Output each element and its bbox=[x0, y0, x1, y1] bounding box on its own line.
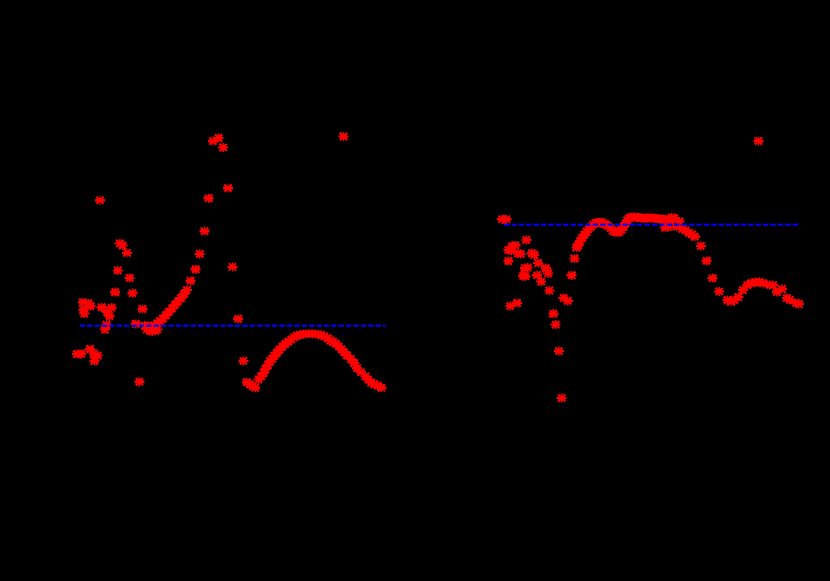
left panel: isolated points bbox=[131, 305, 249, 387]
right panel: rising branch bbox=[567, 218, 607, 280]
left panel: low-left cluster A bbox=[78, 298, 96, 318]
right panel: deep dip points bbox=[548, 293, 573, 402]
right panel: descent after plateau bbox=[672, 217, 725, 296]
left panel: lower hump arc bbox=[242, 329, 386, 392]
left panel: parabola rising chain bbox=[149, 249, 205, 330]
right panel: descending noisy cluster bbox=[503, 236, 554, 311]
right panel: first wiggle bbox=[599, 213, 638, 238]
right panel: lone high point bbox=[754, 137, 764, 146]
left panel: steep left-branch points bbox=[110, 239, 137, 298]
left panel: parabola vertex cluster bbox=[140, 321, 163, 336]
right panel: points at line start bbox=[497, 215, 511, 224]
left panel: low-left cluster B bbox=[97, 303, 117, 334]
right panel: dense plateau run bbox=[630, 213, 680, 232]
left panel: bottom-left cluster bbox=[72, 345, 103, 366]
right panel: tail bump bbox=[723, 278, 804, 309]
left panel: blue dashed mean line bbox=[80, 325, 386, 327]
left panel: scattered outlier points bbox=[95, 132, 349, 271]
right panel: blue dashed mean line bbox=[504, 224, 800, 226]
